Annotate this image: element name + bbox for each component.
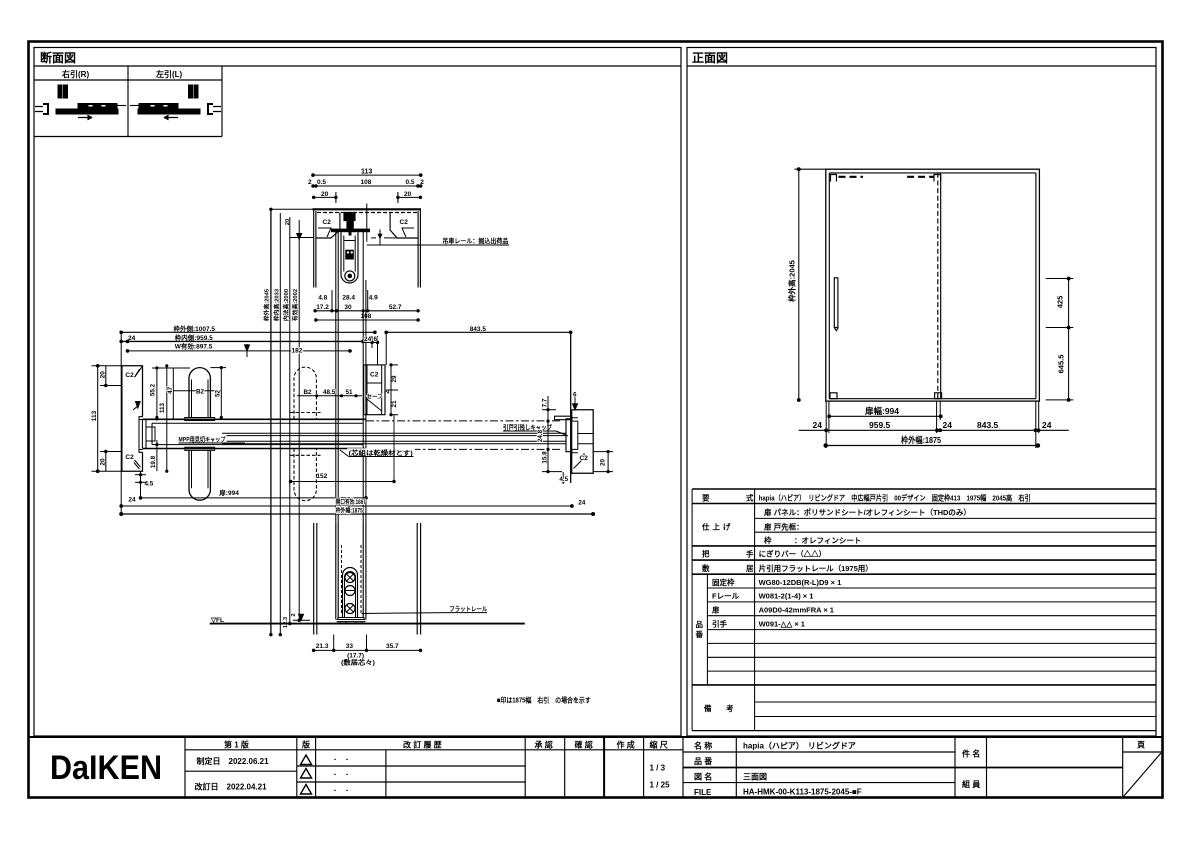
wall lines left bbox=[314, 209, 421, 287]
svg-text:B2: B2 bbox=[304, 389, 313, 396]
svg-text:15.8: 15.8 bbox=[542, 451, 549, 464]
svg-text:枠内側:959.5: 枠内側:959.5 bbox=[175, 333, 213, 342]
triangle 1 bbox=[301, 755, 312, 765]
svg-text:24: 24 bbox=[128, 497, 136, 504]
svg-text:改 訂 履 歴: 改 訂 履 歴 bbox=[403, 740, 442, 750]
svg-text:有効高:2002: 有効高:2002 bbox=[291, 289, 299, 321]
daiken cell divider bbox=[184, 737, 186, 798]
door top dashdot extension bbox=[366, 420, 560, 422]
handle dims bbox=[152, 365, 226, 473]
svg-text:20: 20 bbox=[600, 459, 607, 467]
svg-text:52: 52 bbox=[215, 390, 222, 398]
wall bar bbox=[78, 104, 117, 109]
handle row bottom bbox=[692, 559, 1156, 561]
svg-text:959.5: 959.5 bbox=[869, 420, 891, 430]
svg-text:敷: 敷 bbox=[702, 563, 710, 573]
finish bottom bbox=[692, 545, 1156, 547]
svg-text:645.5: 645.5 bbox=[1057, 355, 1066, 374]
svg-text:52.7: 52.7 bbox=[389, 304, 402, 311]
svg-text:確 認: 確 認 bbox=[575, 740, 593, 750]
door end cap at jamb bbox=[566, 419, 572, 452]
svg-text:・ ・: ・ ・ bbox=[332, 789, 350, 795]
svg-text:品: 品 bbox=[696, 620, 704, 629]
svg-text:縮 尺: 縮 尺 bbox=[650, 740, 668, 750]
flat rail profile bbox=[337, 618, 366, 622]
dim segment texts bbox=[813, 420, 1052, 430]
name grid row3 bbox=[683, 782, 955, 784]
dim 645.5 bbox=[1046, 328, 1074, 402]
bottom extension lines bbox=[826, 401, 1038, 448]
top dim lines bbox=[120, 331, 572, 483]
dim 55.2 line bbox=[156, 368, 158, 421]
rail feet bbox=[340, 622, 362, 624]
arrow left bbox=[164, 116, 178, 120]
extension ticks bbox=[331, 290, 333, 311]
svg-text:12.3: 12.3 bbox=[283, 616, 289, 628]
dim 4.5 left bbox=[135, 471, 146, 498]
svg-text:備: 備 bbox=[704, 703, 712, 713]
dim 425 bbox=[1046, 277, 1074, 329]
svg-text:Fレール: Fレール bbox=[712, 592, 740, 601]
jamb groove bbox=[572, 418, 578, 453]
door bar bbox=[56, 109, 118, 114]
svg-text:改訂日 2022.04.21: 改訂日 2022.04.21 bbox=[195, 782, 268, 792]
wall lines left bbox=[313, 523, 315, 635]
right jamb outline bbox=[572, 410, 594, 474]
stile dims bbox=[386, 364, 398, 416]
b2 dim line bbox=[167, 390, 222, 392]
wall stub right bbox=[213, 107, 221, 112]
svg-text:扉:994: 扉:994 bbox=[219, 488, 239, 497]
svg-text:式: 式 bbox=[746, 493, 754, 503]
check col divider bbox=[603, 737, 605, 798]
svg-text:24: 24 bbox=[943, 420, 953, 430]
hinban bottom bbox=[692, 684, 1156, 686]
dim 1875 bbox=[824, 444, 1039, 447]
svg-text:425: 425 bbox=[1056, 296, 1065, 309]
svg-text:113: 113 bbox=[361, 169, 372, 176]
door left inner bbox=[337, 232, 339, 523]
svg-text:24: 24 bbox=[578, 500, 586, 507]
dim 2045 bbox=[795, 168, 826, 402]
svg-text:24: 24 bbox=[364, 336, 372, 343]
svg-text:扉幅:994: 扉幅:994 bbox=[864, 406, 899, 416]
dim 20 top vertical bbox=[105, 366, 107, 386]
roller screws bbox=[345, 573, 355, 583]
svg-text:把: 把 bbox=[702, 549, 710, 559]
rotated texts for long verticals bbox=[263, 219, 300, 628]
svg-text:左引(L): 左引(L) bbox=[155, 69, 183, 79]
door left cap bbox=[142, 419, 152, 448]
svg-text:W091-△△ × 1: W091-△△ × 1 bbox=[759, 619, 805, 628]
roller housing bbox=[341, 232, 358, 283]
hanger icon bbox=[58, 85, 62, 98]
svg-text:0.5: 0.5 bbox=[406, 179, 415, 186]
frame inner right bbox=[1035, 173, 1037, 399]
hinban sub col bbox=[706, 574, 708, 685]
svg-text:1 / 25: 1 / 25 bbox=[650, 781, 671, 790]
hanger tower bbox=[346, 221, 353, 229]
dim row 2 0.5 108 0.5 2 bbox=[312, 185, 422, 187]
line 2000 bbox=[289, 217, 291, 624]
door core line 1 bbox=[222, 432, 566, 434]
svg-text:17.2: 17.2 bbox=[316, 304, 329, 311]
yoshiki row bottom bbox=[692, 503, 1156, 505]
core note label bbox=[347, 448, 415, 456]
svg-text:C2: C2 bbox=[580, 455, 589, 462]
handle bottom tip bbox=[834, 328, 838, 331]
door core line 3 bbox=[222, 440, 566, 442]
top extension to rail bbox=[271, 208, 314, 210]
left panel title underline bbox=[34, 65, 681, 67]
svg-text:内法高:2000: 内法高:2000 bbox=[282, 289, 290, 321]
scale col divider bbox=[682, 737, 684, 798]
svg-text:枠外幅:1875: 枠外幅:1875 bbox=[336, 506, 364, 514]
dim 1007.5 line bbox=[121, 331, 375, 333]
svg-text:4.5: 4.5 bbox=[145, 480, 154, 487]
svg-text:W081-2(1-4) × 1: W081-2(1-4) × 1 bbox=[759, 592, 814, 601]
pocket lip bottom bbox=[139, 450, 143, 453]
wall bar gaps bbox=[88, 105, 93, 108]
floor guide center bbox=[935, 393, 942, 399]
arrow right bbox=[78, 116, 92, 120]
svg-text:枠外高:2045: 枠外高:2045 bbox=[263, 288, 271, 321]
jamb chamfer bottom bbox=[134, 460, 141, 469]
bottom dims bbox=[312, 635, 421, 652]
svg-text:24: 24 bbox=[128, 335, 136, 342]
svg-text:枠外高:2045: 枠外高:2045 bbox=[787, 260, 797, 303]
svg-text:hapia（ハピア） リビングドア: hapia（ハピア） リビングドア bbox=[743, 741, 856, 751]
svg-text:4.5: 4.5 bbox=[559, 476, 568, 483]
svg-text:扉 パネル：ポリサンドシート/オレフィンシート（THDのみ: 扉 パネル：ポリサンドシート/オレフィンシート（THDのみ） bbox=[763, 507, 971, 517]
hinban row lines bbox=[707, 587, 1156, 589]
create col divider bbox=[643, 737, 645, 798]
door left edge bbox=[335, 232, 337, 523]
hikinokoshi cap label bbox=[502, 423, 555, 431]
svg-text:仕上げ: 仕上げ bbox=[701, 522, 734, 532]
title block top line bbox=[29, 736, 1163, 738]
right-pull cell bbox=[35, 85, 126, 120]
left extension vertical bbox=[120, 332, 122, 514]
door frame outer rect bbox=[826, 169, 1040, 401]
dim 113 vertical bbox=[92, 365, 122, 473]
door inner bottom line bbox=[152, 444, 363, 446]
svg-text:MPP用見切キャップ: MPP用見切キャップ bbox=[179, 435, 227, 444]
svg-text:枠内高:2033: 枠内高:2033 bbox=[272, 288, 280, 321]
svg-text:182: 182 bbox=[292, 347, 303, 354]
upper rail dashed seg2 bbox=[907, 176, 934, 178]
hanger plate band bbox=[331, 229, 370, 233]
pocket lip top bbox=[139, 417, 143, 420]
svg-text:・ ・: ・ ・ bbox=[332, 758, 350, 764]
svg-text:枠外側:1007.5: 枠外側:1007.5 bbox=[174, 324, 216, 333]
top-center hanger bracket bbox=[934, 175, 941, 182]
jamb bracket right bbox=[208, 104, 213, 114]
handle dashed upper bbox=[290, 367, 321, 419]
svg-text:113: 113 bbox=[159, 402, 166, 413]
left jamb section bbox=[122, 366, 143, 471]
svg-text:843.5: 843.5 bbox=[977, 420, 999, 430]
svg-text:29: 29 bbox=[391, 375, 398, 383]
svg-text:843.5: 843.5 bbox=[470, 326, 487, 333]
dim line 17.2/30/52.7 bbox=[315, 310, 418, 312]
center stile solid bbox=[940, 173, 942, 399]
chamfer mark left bbox=[318, 228, 331, 237]
dim 20 pair bbox=[313, 192, 422, 203]
svg-text:フラットレール: フラットレール bbox=[449, 605, 488, 613]
right panel frame bbox=[687, 48, 1156, 737]
svg-text:20: 20 bbox=[404, 191, 412, 198]
wall bar bbox=[139, 104, 178, 109]
svg-text:1 / 3: 1 / 3 bbox=[650, 764, 666, 773]
rev mark col divider bbox=[315, 737, 317, 798]
svg-text:第 1 版: 第 1 版 bbox=[224, 740, 249, 750]
pocket inner wall bbox=[138, 417, 140, 453]
kenmei col divider bbox=[954, 737, 956, 798]
svg-text:C2: C2 bbox=[125, 454, 134, 461]
svg-text:枠外幅:1875: 枠外幅:1875 bbox=[901, 435, 941, 445]
svg-text:55.2: 55.2 bbox=[150, 383, 157, 396]
svg-text:6: 6 bbox=[573, 392, 577, 399]
svg-text:19.8: 19.8 bbox=[150, 455, 157, 468]
843.5 left extension vertical bbox=[385, 332, 387, 365]
dim segments line bbox=[799, 429, 1069, 432]
svg-text:152: 152 bbox=[316, 473, 327, 480]
svg-text:2: 2 bbox=[308, 179, 312, 186]
line 2045 bbox=[270, 209, 272, 634]
door top edge bbox=[142, 418, 366, 420]
svg-text:(17.7): (17.7) bbox=[347, 653, 364, 660]
wall thin line bbox=[130, 105, 139, 107]
svg-text:WG80-12DB(R-L)D9 × 1: WG80-12DB(R-L)D9 × 1 bbox=[759, 578, 842, 587]
svg-text:2: 2 bbox=[291, 613, 297, 616]
svg-text:頁: 頁 bbox=[1137, 741, 1145, 750]
frame inner top bbox=[829, 172, 1036, 174]
svg-text:開口有効:1867: 開口有効:1867 bbox=[336, 498, 366, 506]
wall lines right bbox=[417, 211, 419, 288]
svg-text:21.3: 21.3 bbox=[316, 643, 329, 650]
bottom dims of top detail bbox=[316, 295, 402, 311]
door core line 4 bbox=[222, 443, 566, 445]
rev history col divider bbox=[524, 737, 526, 798]
dim 897.5 line bbox=[128, 350, 351, 352]
door core line 2 bbox=[222, 435, 566, 437]
dim 152 bbox=[289, 415, 395, 483]
housing inner bbox=[344, 236, 355, 272]
line 2033 bbox=[279, 213, 281, 635]
rail body bottom edge right bbox=[390, 213, 418, 239]
svg-text:図 名: 図 名 bbox=[694, 772, 712, 782]
kenmei split bbox=[987, 767, 1123, 769]
svg-text:20: 20 bbox=[99, 458, 106, 466]
svg-text:HA-HMK-00-K113-1875-2045-■F: HA-HMK-00-K113-1875-2045-■F bbox=[743, 788, 862, 797]
bolt bbox=[345, 250, 354, 259]
svg-text:28.4: 28.4 bbox=[342, 295, 355, 302]
name grid row1 bbox=[683, 751, 955, 753]
svg-text:固定枠: 固定枠 bbox=[712, 577, 735, 587]
shikii row bottom bbox=[692, 573, 1156, 575]
top-left hanger bracket bbox=[831, 175, 837, 182]
rev rows line2 bbox=[297, 781, 525, 783]
jamb chamfer bbox=[574, 453, 585, 469]
rail body inner dashed bbox=[317, 212, 417, 214]
triangle 3 bbox=[301, 785, 312, 795]
door verticals bbox=[335, 523, 337, 620]
wall thin line bbox=[117, 105, 126, 107]
svg-text:47: 47 bbox=[167, 386, 174, 394]
svg-text:版: 版 bbox=[301, 740, 310, 750]
door bottom edge bbox=[142, 448, 366, 450]
svg-text:108: 108 bbox=[361, 179, 372, 186]
floor guide left bbox=[830, 393, 837, 399]
rev rows line1 bbox=[297, 765, 525, 767]
dim 24/6 line bbox=[363, 341, 378, 343]
seitei row bottom bbox=[185, 770, 297, 772]
roller housing inner bbox=[345, 572, 356, 619]
svg-text:20: 20 bbox=[99, 371, 106, 379]
hanger assembly bbox=[331, 213, 397, 284]
svg-text:51: 51 bbox=[346, 389, 354, 396]
svg-text:扉: 扉 bbox=[711, 605, 720, 615]
guide slot dashed bbox=[341, 545, 343, 614]
svg-text:21: 21 bbox=[391, 400, 398, 408]
label col divider bbox=[754, 489, 756, 731]
svg-text:33: 33 bbox=[346, 643, 354, 650]
right jamb section bbox=[555, 410, 594, 474]
svg-text:・ ・: ・ ・ bbox=[332, 773, 350, 779]
jamb inner partition bbox=[578, 434, 593, 444]
jamb chamfer top bbox=[135, 366, 143, 377]
svg-text:2: 2 bbox=[420, 179, 424, 186]
rail center arrow bbox=[378, 234, 383, 240]
svg-text:承 認: 承 認 bbox=[535, 740, 553, 750]
svg-text:(芯組は乾燥材とす): (芯組は乾燥材とす) bbox=[349, 448, 413, 457]
header row bottom left bbox=[185, 749, 683, 751]
svg-text:0.5: 0.5 bbox=[317, 179, 326, 186]
svg-text:35.7: 35.7 bbox=[386, 643, 399, 650]
table bottom bbox=[692, 730, 1156, 732]
pocket arrow bbox=[136, 402, 141, 409]
svg-text:30: 30 bbox=[344, 304, 352, 311]
track center line bbox=[366, 204, 368, 242]
svg-text:名 称: 名 称 bbox=[694, 741, 712, 751]
843.5 right extension vertical bbox=[570, 332, 572, 483]
svg-text:手: 手 bbox=[746, 549, 754, 559]
page col divider bbox=[1122, 737, 1124, 798]
apex extension bbox=[210, 367, 226, 369]
triangle 2 bbox=[301, 769, 312, 779]
svg-text:要: 要 bbox=[702, 494, 710, 503]
pocket mark bbox=[146, 427, 155, 441]
svg-text:C2: C2 bbox=[125, 372, 134, 379]
svg-text:48.5: 48.5 bbox=[323, 389, 336, 396]
door right edge bbox=[365, 280, 367, 523]
hanger icon bbox=[189, 85, 193, 98]
door slab band bbox=[142, 419, 571, 452]
finish row2 line bbox=[755, 531, 1156, 533]
frame inner left bbox=[828, 173, 830, 399]
dim 1875 plan bbox=[120, 513, 595, 516]
page diagonal bbox=[1124, 753, 1162, 797]
handle solid lower bbox=[185, 447, 215, 500]
door stop step bbox=[555, 416, 572, 420]
handle solid upper bbox=[185, 368, 215, 421]
svg-text:吊車レール：掘込出荷品: 吊車レール：掘込出荷品 bbox=[442, 236, 508, 245]
door bottom dashdot extension bbox=[366, 448, 560, 450]
handle bar bbox=[834, 278, 838, 328]
jamb outline bbox=[122, 366, 143, 471]
svg-text:W有効:897.5: W有効:897.5 bbox=[175, 342, 213, 351]
name grid row2 thick bbox=[683, 767, 987, 769]
table left edge bbox=[691, 489, 693, 731]
svg-text:A09D0-42mmFRA × 1: A09D0-42mmFRA × 1 bbox=[759, 606, 834, 615]
dim line 108 bbox=[316, 319, 418, 321]
biko row lines bbox=[755, 701, 1156, 703]
svg-text:(敷居芯々): (敷居芯々) bbox=[341, 658, 375, 667]
handle dashed lower bbox=[290, 449, 321, 501]
dim 47 line bbox=[172, 368, 174, 419]
svg-text:制定日 2022.06.21: 制定日 2022.06.21 bbox=[197, 756, 270, 766]
hanger top plate bbox=[344, 213, 355, 221]
svg-text:にぎりバー（△△）: にぎりバー（△△） bbox=[759, 549, 827, 559]
rev history sub divider bbox=[385, 750, 387, 798]
rev date col divider bbox=[296, 737, 298, 798]
hanger pin bbox=[349, 226, 352, 236]
roller housing bbox=[343, 568, 358, 618]
svg-text:扉 戸先框：: 扉 戸先框： bbox=[763, 521, 804, 531]
center stile dashed bbox=[937, 173, 939, 399]
MPP cap label bbox=[177, 435, 227, 443]
svg-text:20: 20 bbox=[321, 191, 329, 198]
svg-text:24.8: 24.8 bbox=[537, 429, 544, 442]
svg-text:■印は1875幅 右引 の場合を示す: ■印は1875幅 右引 の場合を示す bbox=[497, 696, 591, 705]
svg-text:枠 ：オレフィンシート: 枠 ：オレフィンシート bbox=[763, 535, 861, 545]
dim 52 vertical bbox=[220, 368, 222, 420]
rail top line bbox=[313, 208, 422, 210]
line 2002 bbox=[298, 220, 300, 620]
svg-text:右引(R): 右引(R) bbox=[61, 69, 89, 79]
name label col divider bbox=[735, 737, 737, 798]
dim 20 bottom vertical bbox=[105, 452, 107, 472]
roller bbox=[345, 271, 355, 281]
svg-text:考: 考 bbox=[726, 703, 734, 713]
svg-text:4.8: 4.8 bbox=[318, 295, 327, 302]
svg-text:番: 番 bbox=[695, 629, 704, 639]
floor line bbox=[210, 623, 525, 625]
svg-text:2: 2 bbox=[384, 390, 391, 394]
wall stub left bbox=[35, 107, 43, 112]
svg-text:片引用フラットレール（1975用）: 片引用フラットレール（1975用） bbox=[759, 563, 873, 573]
svg-text:6: 6 bbox=[374, 336, 378, 343]
rev triangles bbox=[301, 755, 351, 795]
svg-text:FILE: FILE bbox=[694, 788, 712, 797]
svg-text:作 成: 作 成 bbox=[617, 740, 635, 750]
svg-text:三面図: 三面図 bbox=[743, 773, 767, 782]
svg-text:24: 24 bbox=[813, 420, 823, 430]
small arrow mark bbox=[297, 234, 302, 240]
svg-text:引手: 引手 bbox=[712, 618, 727, 628]
finish row1 line bbox=[755, 517, 1156, 519]
dim 994 bbox=[828, 415, 942, 418]
svg-text:件 名: 件 名 bbox=[962, 749, 980, 759]
mini table box bbox=[34, 79, 222, 81]
big cell divider bbox=[986, 737, 988, 798]
svg-text:20: 20 bbox=[285, 219, 291, 225]
svg-text:断面図: 断面図 bbox=[40, 50, 76, 65]
door right inner bbox=[362, 232, 364, 523]
svg-text:24: 24 bbox=[1042, 420, 1052, 430]
table top bbox=[692, 488, 1156, 490]
